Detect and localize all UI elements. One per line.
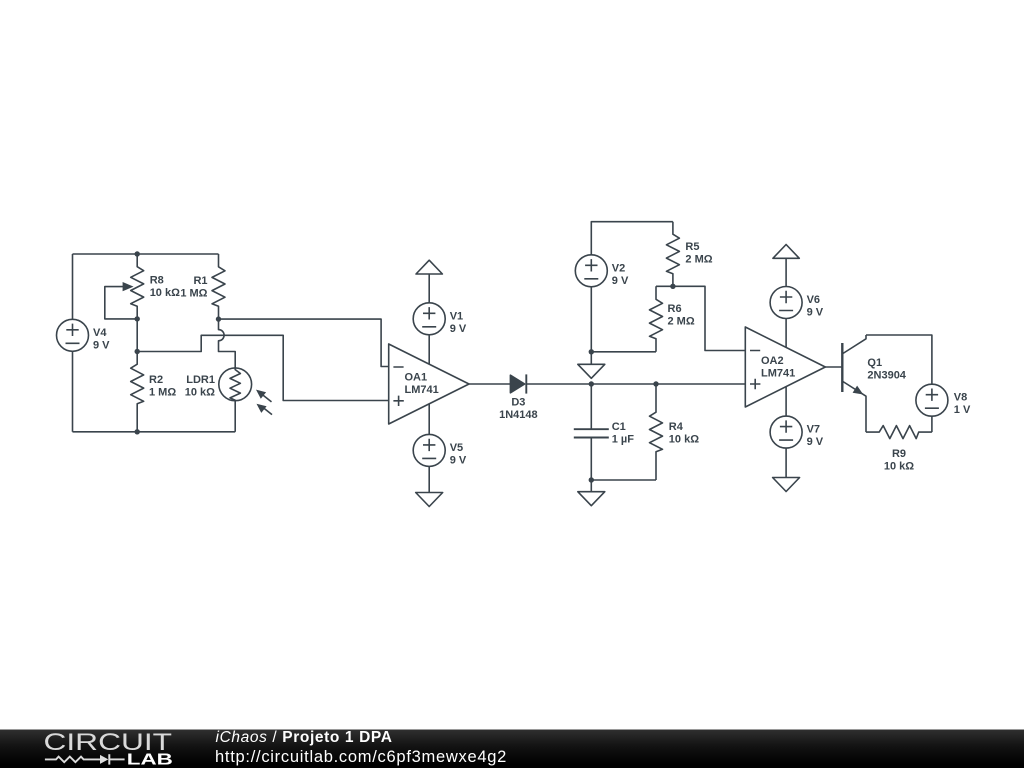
ground below V2 <box>578 352 605 379</box>
svg-text:D3: D3 <box>511 397 525 409</box>
svg-text:V4: V4 <box>93 327 107 339</box>
wire V8 bottom lead <box>931 416 933 432</box>
wire V2 bottom lead <box>590 287 592 352</box>
wire OA1 V+ pin <box>428 335 430 364</box>
label OA1 LM741 <box>405 372 439 397</box>
wire R5 junction to R6 top <box>656 285 673 287</box>
resistor R4 <box>650 384 663 480</box>
svg-text:1 MΩ: 1 MΩ <box>149 387 176 399</box>
transistor Q1 2N3904 <box>842 335 866 432</box>
label V5 value 9 V <box>450 442 467 467</box>
wire D3 to OA2 non-inverting input <box>526 383 745 385</box>
svg-text:9 V: 9 V <box>807 436 824 448</box>
svg-text:9 V: 9 V <box>612 275 629 287</box>
wire Q1 collector to V8 top <box>866 335 932 384</box>
op-amp OA1 <box>389 344 469 424</box>
node C1/R4 ground junction <box>589 477 594 482</box>
wire C1 top lead <box>590 384 592 429</box>
wire R5 junction to OA2 inverting input <box>673 286 745 350</box>
node top rail / R8 junction <box>135 251 140 256</box>
voltage source V1 <box>413 303 445 335</box>
svg-text:1 MΩ: 1 MΩ <box>180 288 207 300</box>
CircuitLab logo <box>0 729 200 768</box>
wire R8 wiper arm <box>105 287 137 319</box>
label V4 value 9 V <box>93 327 110 352</box>
wire bottom rail <box>73 431 236 433</box>
svg-text:R9: R9 <box>892 448 906 460</box>
node R1 bottom junction <box>216 316 221 321</box>
LDR1 light arrow 1 <box>256 390 272 402</box>
footer banner <box>0 729 1024 768</box>
wire OA1 output to D3 <box>469 383 510 385</box>
node main line / R4 branch <box>653 381 658 386</box>
svg-text:1 V: 1 V <box>954 404 971 416</box>
wire R1 junction to OA1 inverting input <box>219 319 389 366</box>
ground below C1 <box>578 480 605 506</box>
label V7 value 9 V <box>807 424 824 449</box>
voltage source V6 <box>770 287 802 319</box>
label R5 value 2 M&#937; <box>685 241 712 266</box>
wiper arrowhead R8 <box>123 282 134 291</box>
wire bridge node to OA1 non-inverting input <box>137 335 389 400</box>
diode D3 <box>510 374 526 393</box>
label R9 value 10 k&#937; <box>884 448 914 472</box>
node R2 top junction <box>135 349 140 354</box>
label R8 value 10 k&#937; <box>150 275 180 300</box>
wire OA2 V+ pin <box>785 319 787 348</box>
label C1 value 1 &#181;F <box>612 421 635 446</box>
label OA2 LM741 <box>761 355 795 380</box>
label R1 value 1 M&#937; <box>180 275 207 300</box>
voltage source V7 <box>770 416 802 448</box>
plot title <box>216 729 393 747</box>
label LDR1 value 10 k&#937; <box>185 374 215 399</box>
wire R1 to LDR1 with hop over crossing <box>219 319 236 368</box>
svg-text:V2: V2 <box>612 262 625 274</box>
svg-text:V7: V7 <box>807 424 820 436</box>
voltage source V8 <box>916 384 948 416</box>
op-amp OA2 <box>745 327 825 407</box>
label V2 value 9 V <box>612 262 629 287</box>
voltage source V5 <box>413 434 445 466</box>
wire R8 to R2 <box>136 319 138 352</box>
svg-text:Q1: Q1 <box>867 357 882 369</box>
node bottom rail / R2 junction <box>135 429 140 434</box>
wire V4 top lead <box>72 254 74 319</box>
svg-text:LAB: LAB <box>127 752 173 768</box>
power supply VCC arrow above V6 <box>773 245 799 287</box>
svg-text:R5: R5 <box>685 241 699 253</box>
wire C1 bottom lead <box>590 438 592 481</box>
svg-text:R4: R4 <box>669 421 684 433</box>
svg-text:9 V: 9 V <box>450 323 467 335</box>
voltage source V2 <box>575 255 607 287</box>
svg-text:10 kΩ: 10 kΩ <box>669 434 699 446</box>
label R6 value 2 M&#937; <box>668 303 695 328</box>
wire OA2 output to Q1 base <box>825 366 842 368</box>
svg-text:1N4148: 1N4148 <box>499 409 538 421</box>
svg-text:V1: V1 <box>450 310 463 322</box>
svg-text:R6: R6 <box>668 303 682 315</box>
LDR1 light arrow 2 <box>257 404 273 415</box>
resistor R5 <box>666 222 679 287</box>
svg-text:10 kΩ: 10 kΩ <box>185 387 215 399</box>
plot url <box>215 748 507 767</box>
wire V4 bottom lead <box>72 351 74 432</box>
svg-text:9 V: 9 V <box>450 454 467 466</box>
svg-text:V5: V5 <box>450 442 463 454</box>
ground below V5 <box>416 466 443 506</box>
svg-text:1 µF: 1 µF <box>612 434 635 446</box>
svg-text:10 kΩ: 10 kΩ <box>884 460 914 472</box>
svg-text:LM741: LM741 <box>761 368 795 380</box>
svg-text:2 MΩ: 2 MΩ <box>685 254 712 266</box>
resistor R2 <box>131 352 144 432</box>
svg-text:2 MΩ: 2 MΩ <box>668 316 695 328</box>
svg-text:OA2: OA2 <box>761 355 784 367</box>
svg-text:R2: R2 <box>149 374 163 386</box>
label V6 value 9 V <box>807 294 824 319</box>
wire V2 top to R5 top <box>591 222 673 255</box>
wire V2 minus to R6 bottom <box>591 351 656 353</box>
node R5 bottom junction <box>670 284 675 289</box>
svg-text:LM741: LM741 <box>405 384 439 396</box>
label R2 value 1 M&#937; <box>149 374 176 399</box>
resistor R6 <box>650 286 663 352</box>
power supply VCC arrow above V1 <box>416 260 442 303</box>
svg-text:OA1: OA1 <box>405 372 428 384</box>
ground below V7 <box>773 448 800 491</box>
node R8 bottom junction <box>135 316 140 321</box>
svg-text:2N3904: 2N3904 <box>867 370 906 382</box>
svg-text:10 kΩ: 10 kΩ <box>150 287 180 299</box>
voltage source V4 <box>57 319 89 351</box>
svg-text:LDR1: LDR1 <box>186 374 215 386</box>
wire R4 bottom to C1 bottom <box>591 479 656 481</box>
svg-text:C1: C1 <box>612 421 626 433</box>
label D3 value 1N4148 <box>499 397 538 422</box>
node main line / C1 branch <box>589 381 594 386</box>
photoresistor LDR1 <box>219 368 252 401</box>
svg-text:9 V: 9 V <box>93 339 110 351</box>
label V1 value 9 V <box>450 310 467 335</box>
wire LDR1 bottom lead <box>234 401 236 432</box>
svg-text:V6: V6 <box>807 294 820 306</box>
wire OA2 V- pin <box>785 387 787 417</box>
wire OA1 V- pin <box>428 404 430 435</box>
wire top rail <box>73 253 219 255</box>
resistor R1 <box>212 254 225 319</box>
resistor R8 (potentiometer) <box>131 254 144 319</box>
svg-text:V8: V8 <box>954 392 967 404</box>
svg-text:R1: R1 <box>193 275 207 287</box>
resistor R9 <box>866 426 932 439</box>
node V2 minus junction <box>589 349 594 354</box>
label R4 value 10 k&#937; <box>669 421 699 446</box>
svg-text:R8: R8 <box>150 275 164 287</box>
label Q1 value 2N3904 <box>867 357 906 382</box>
capacitor C1 <box>574 429 609 437</box>
label V8 value 1 V <box>954 392 971 417</box>
svg-text:9 V: 9 V <box>807 307 824 319</box>
